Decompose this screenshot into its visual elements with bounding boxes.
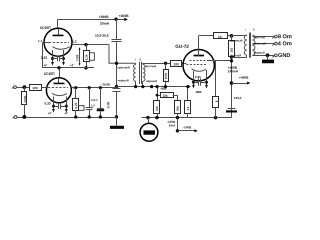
svg-text:50k: 50k bbox=[176, 106, 180, 111]
svg-text:1,0: 1,0 bbox=[186, 106, 190, 110]
svg-text:10,8-36,8: 10,8-36,8 bbox=[95, 34, 109, 38]
svg-text:6C45П: 6C45П bbox=[40, 26, 51, 30]
svg-text:2mA: 2mA bbox=[169, 123, 176, 127]
svg-text:желтый: желтый bbox=[253, 35, 265, 39]
svg-text:100: 100 bbox=[174, 62, 180, 66]
svg-text:черный: черный bbox=[254, 51, 265, 55]
svg-text:100k: 100k bbox=[23, 95, 27, 102]
svg-text:0,33: 0,33 bbox=[41, 56, 47, 60]
svg-text:10: 10 bbox=[218, 35, 222, 39]
svg-text:100k: 100k bbox=[164, 72, 168, 79]
svg-text:черный: черный bbox=[146, 79, 157, 83]
svg-text:0,25: 0,25 bbox=[195, 75, 201, 79]
svg-text:1,2: 1,2 bbox=[72, 40, 77, 44]
svg-text:I: I bbox=[135, 57, 136, 61]
svg-text:0,33: 0,33 bbox=[44, 102, 50, 106]
svg-text:-100B: -100B bbox=[183, 125, 192, 129]
svg-text:3,3B: 3,3B bbox=[106, 101, 110, 108]
svg-text:красный: красный bbox=[254, 41, 267, 45]
svg-text:+Г: +Г bbox=[64, 111, 68, 115]
svg-text:10k: 10k bbox=[155, 106, 159, 111]
svg-text:6,2k: 6,2k bbox=[74, 102, 78, 108]
svg-text:красный: красный bbox=[230, 39, 243, 43]
svg-text:II: II bbox=[140, 57, 142, 61]
svg-text:20mA: 20mA bbox=[100, 22, 110, 26]
svg-text:+400B: +400B bbox=[239, 76, 249, 80]
svg-text:22k: 22k bbox=[163, 94, 168, 98]
svg-text:6,2k: 6,2k bbox=[85, 54, 89, 60]
svg-text:2,5B: 2,5B bbox=[75, 54, 79, 61]
svg-text:140mA: 140mA bbox=[228, 69, 239, 73]
svg-text:100: 100 bbox=[32, 86, 38, 90]
svg-text:100,0: 100,0 bbox=[234, 96, 242, 100]
svg-text:+Г: +Г bbox=[48, 111, 52, 115]
svg-text:4 Om: 4 Om bbox=[278, 41, 292, 47]
svg-text:+400B: +400B bbox=[119, 14, 130, 18]
svg-text:-90B: -90B bbox=[160, 87, 167, 91]
svg-text:I: I bbox=[245, 28, 246, 32]
svg-text:1,0: 1,0 bbox=[91, 103, 95, 107]
svg-text:6C45П: 6C45П bbox=[44, 72, 55, 76]
svg-text:1,1: 1,1 bbox=[38, 39, 43, 43]
svg-text:черный: черный bbox=[118, 78, 129, 82]
svg-text:GU-72: GU-72 bbox=[175, 44, 189, 49]
svg-text:желтый: желтый bbox=[144, 64, 156, 68]
svg-text:150: 150 bbox=[230, 47, 234, 52]
svg-text:100,0: 100,0 bbox=[91, 98, 98, 102]
svg-text:II: II bbox=[253, 28, 255, 32]
svg-text:GND: GND bbox=[278, 53, 290, 59]
svg-text:-36,8B: -36,8B bbox=[101, 82, 109, 86]
svg-text:8 Om: 8 Om bbox=[278, 34, 292, 40]
svg-text:черный: черный bbox=[230, 53, 241, 57]
svg-text:+390B: +390B bbox=[99, 15, 110, 19]
svg-text:красный: красный bbox=[117, 65, 130, 69]
svg-text:-96B: -96B bbox=[195, 90, 202, 94]
